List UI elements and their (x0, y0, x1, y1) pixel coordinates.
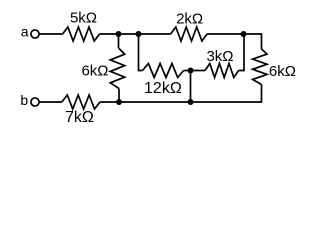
wire: node 4 to R 7k (100, 101, 119, 103)
junction node 5 (188, 99, 194, 105)
junction node 3 (241, 31, 247, 37)
terminal a (31, 30, 39, 38)
svg-text:3kΩ: 3kΩ (206, 48, 233, 65)
svg-text:12kΩ: 12kΩ (144, 80, 182, 97)
wire: R 3k up to node 3 (239, 34, 244, 71)
resistor 12kOhm (143, 64, 184, 78)
wire: R 12k to node 6 (184, 70, 191, 72)
resistor 6kOhm left (110, 49, 124, 89)
svg-text:2kΩ: 2kΩ (176, 10, 203, 27)
wire: R 7k to terminal b (39, 101, 62, 103)
wire: R 2k to node 3 (207, 33, 243, 35)
wire: R 5k to node 1 (100, 33, 119, 35)
terminal b (31, 98, 39, 106)
resistor 3kOhm (205, 64, 239, 78)
wire: node 1 down to R 6k left (118, 34, 120, 49)
junction node 4 (116, 99, 122, 105)
junction node 1 (116, 31, 122, 37)
svg-text:6kΩ: 6kΩ (81, 62, 108, 79)
wire: R 6k left to node 4 (118, 89, 120, 103)
resistor 7kOhm (62, 95, 100, 109)
resistor 6kOhm right (253, 49, 267, 85)
svg-text:7kΩ: 7kΩ (65, 109, 94, 126)
resistor 5kOhm (63, 27, 100, 41)
wire: R 6k right to bottom-right corner to node 5 (191, 85, 262, 103)
wire: node 1 to node 2 (119, 33, 139, 35)
wire: node 2 to R 2k (139, 33, 171, 35)
wire: node 3 to top-right corner down to R 6k right (244, 34, 262, 49)
wire: node 5 to node 4 (119, 101, 191, 103)
resistor 2kOhm (171, 27, 208, 41)
junction node 2 (136, 31, 142, 37)
svg-text:b: b (20, 92, 28, 108)
wire: terminal a to R 5k (39, 33, 62, 35)
wire: node 6 to R 3k (191, 70, 206, 72)
svg-text:5kΩ: 5kΩ (70, 9, 97, 26)
junction node 6 (188, 68, 194, 74)
svg-text:a: a (21, 24, 29, 40)
svg-text:6kΩ: 6kΩ (269, 63, 296, 80)
wire: node 2 down to R 12k (139, 34, 143, 71)
wire: node 6 down to node 5 (190, 71, 192, 103)
